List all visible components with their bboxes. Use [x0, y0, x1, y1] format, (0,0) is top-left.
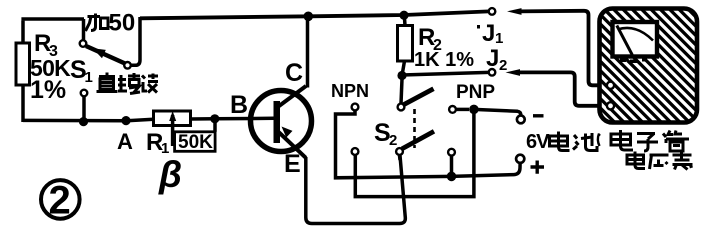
wire left rail top segment — [21, 21, 25, 44]
wire S1 right throw to top rail — [131, 17, 140, 65]
switch S2 lower-left contact — [352, 148, 359, 155]
wire lower-right contact stem — [450, 156, 454, 176]
voltmeter terminal 2 — [607, 102, 614, 109]
terminal J2 — [489, 69, 496, 76]
wire base line right of R1 — [191, 117, 275, 121]
wire S1 common stem — [82, 97, 86, 123]
resistor R2 — [398, 26, 413, 62]
wire junction to J2 terminal — [402, 72, 489, 75]
wire meter lead 2 (to J2) — [517, 72, 600, 105]
svg-text:1: 1 — [85, 69, 93, 86]
svg-text:2: 2 — [49, 179, 71, 223]
transistor base bar — [274, 101, 281, 143]
switch S2 lower pole contact — [396, 148, 403, 155]
arrow to J1 — [507, 8, 522, 15]
transistor collector stroke — [277, 86, 306, 108]
wire left rail bottom segment — [21, 84, 25, 122]
svg-text:NPN: NPN — [331, 81, 369, 101]
wire top rail — [140, 11, 489, 18]
junction at S1 common and base wire — [79, 117, 88, 126]
junction collector/top rail — [304, 11, 314, 21]
switch S2 upper pole contact — [398, 104, 405, 111]
switch S2 upper blade — [404, 89, 434, 105]
svg-text:J: J — [486, 45, 499, 72]
R1 value box 50K — [175, 132, 216, 152]
arrow to J2 — [506, 69, 521, 76]
svg-text:1K 1%: 1K 1% — [414, 49, 474, 71]
switch S1 top contact — [80, 40, 87, 47]
transistor Q1 circle — [251, 91, 312, 152]
wire net NPN-top to battery plus (line A) — [336, 111, 521, 178]
label minus sign — [533, 114, 544, 117]
battery plus terminal — [516, 155, 524, 163]
label 电子管 (electron tube) — [611, 130, 689, 151]
svg-text:A: A — [117, 129, 133, 154]
label 直接读 (direct read) — [97, 73, 159, 94]
resistor R3 — [16, 43, 30, 85]
switch S2 lower blade — [402, 131, 434, 149]
battery minus terminal — [517, 116, 525, 124]
svg-text:J: J — [482, 20, 495, 47]
junction at R1 output — [210, 114, 219, 123]
voltmeter scale arc — [618, 28, 653, 41]
wire S2 upper pole stem — [401, 79, 402, 104]
voltmeter window frame — [613, 22, 658, 57]
svg-text:C: C — [285, 59, 303, 87]
junction R2 / top rail — [399, 11, 408, 20]
svg-text:PNP: PNP — [456, 82, 495, 103]
svg-text:1%: 1% — [30, 76, 66, 104]
transistor emitter stroke — [277, 131, 306, 158]
wire R2 top — [403, 15, 407, 26]
wire R1 wiper loop to main wire — [213, 119, 217, 132]
svg-text:6V: 6V — [526, 131, 550, 153]
transistor emitter arrow (pointing to base: PNP) — [282, 127, 293, 138]
switch S2 lower-right contact — [448, 149, 455, 156]
junction PNP node — [469, 105, 479, 115]
junction lower-right contact on line A — [447, 172, 457, 182]
switch S2 NPN contact — [352, 104, 359, 111]
figure number 2 circled — [41, 180, 80, 219]
svg-text:β: β — [158, 154, 182, 195]
label 加50 (jia 50) — [86, 14, 109, 32]
wire emitter down and bottom bus — [306, 156, 406, 224]
voltmeter body — [600, 9, 698, 123]
label plus sign — [531, 161, 545, 174]
label 电池 (battery) — [550, 132, 598, 151]
wire collector to top rail — [306, 17, 310, 88]
switch S2 PNP contact — [449, 106, 456, 113]
node A junction — [121, 116, 130, 125]
svg-text:E: E — [284, 150, 301, 178]
svg-text:2: 2 — [499, 57, 507, 74]
switch S2 mechanical link (dashed) — [413, 109, 416, 148]
wire S2 lower pole to emitter bus — [398, 156, 402, 161]
wire R2 bottom to junction — [402, 61, 405, 76]
wire meter lead 1 (to J1) — [518, 11, 601, 86]
svg-text:50K: 50K — [178, 132, 213, 153]
potentiometer R1 body — [154, 111, 191, 126]
svg-text:2: 2 — [389, 132, 397, 149]
wire bottom base line (left of R1) — [23, 119, 154, 121]
wire PNP junction to minus terminal — [474, 109, 521, 115]
voltmeter window speckles — [620, 59, 626, 63]
potentiometer R1 wiper arrow — [171, 115, 175, 146]
svg-text:50: 50 — [109, 10, 136, 37]
svg-text:B: B — [230, 91, 248, 119]
label J1 — [477, 25, 480, 29]
label 电压表 (voltmeter) — [627, 152, 693, 170]
switch S1 common contact — [81, 90, 88, 97]
wire net PNP-top to battery minus — [457, 108, 470, 112]
switch S1 blade arrow — [93, 48, 106, 58]
stray mark before label — [598, 134, 600, 147]
switch S1 blade — [86, 46, 125, 64]
voltmeter needle — [617, 26, 633, 56]
voltmeter terminal 1 — [607, 82, 614, 89]
junction R2 bottom node — [397, 71, 406, 80]
wire top-left horizontal — [21, 17, 84, 21]
terminal J1 — [489, 8, 496, 15]
wire PNP junction down to line B to lower-left contact — [355, 114, 474, 197]
switch S1 right contact — [124, 62, 131, 69]
wire S1 top throw stem — [82, 19, 86, 40]
